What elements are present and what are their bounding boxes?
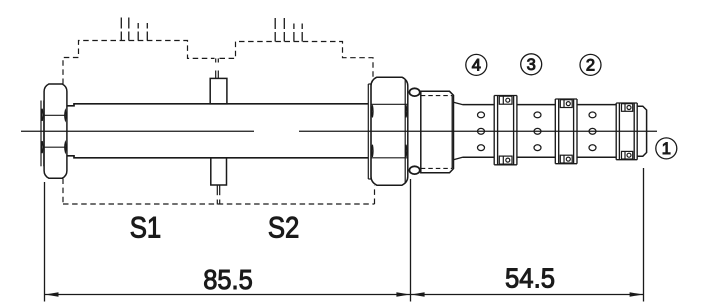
seal land 3 seal blocks	[622, 104, 633, 159]
sleeve 1	[463, 105, 495, 158]
connector block top leads	[216, 58, 219, 78]
coil box bottom dashed	[63, 179, 375, 205]
extension line left	[44, 182, 46, 302]
sleeve 2	[517, 105, 555, 158]
port callout 3	[521, 54, 542, 75]
dimension line	[45, 294, 644, 296]
hex nut N2 facet lines	[371, 79, 408, 184]
nose end cap	[637, 106, 646, 156]
svg-text:1: 1	[662, 140, 671, 158]
arrowheads	[45, 292, 643, 296]
tube body	[67, 104, 368, 158]
nut N1 hex body	[44, 84, 67, 178]
seal land 2	[555, 99, 577, 164]
connector pins S2	[275, 18, 302, 42]
hex nut N2 flange	[368, 84, 371, 179]
seal land 1 seal blocks	[499, 96, 512, 164]
connector block top	[210, 78, 227, 103]
gland right face	[452, 95, 462, 168]
nut N1 facet lines	[41, 109, 66, 153]
hex nut N2 body	[371, 77, 408, 185]
extension line middle	[410, 179, 412, 302]
svg-text:S2: S2	[268, 212, 300, 245]
port callout 2	[580, 54, 601, 75]
connector block bottom leads	[217, 185, 219, 205]
o-ring top	[409, 88, 419, 96]
nut N1 washer	[41, 101, 44, 167]
gland body thread dashed	[421, 96, 452, 169]
svg-text:2: 2	[586, 57, 595, 75]
svg-text:3: 3	[527, 56, 536, 74]
extension line right	[643, 168, 645, 302]
connector block bottom	[211, 158, 227, 185]
o-ring bottom	[409, 166, 419, 174]
coil S1 dashed outline	[63, 41, 215, 85]
sleeve 3 holes	[589, 112, 596, 151]
svg-text:54.5: 54.5	[505, 263, 555, 294]
connector pins S1	[121, 18, 147, 41]
svg-text:4: 4	[472, 57, 481, 75]
port callout 1	[656, 138, 677, 159]
sleeve 1 holes	[478, 112, 485, 151]
centerline	[21, 130, 657, 132]
gland body	[421, 91, 454, 173]
seal land 1	[494, 96, 517, 165]
port callout 4	[466, 54, 487, 75]
sleeve 3	[577, 105, 616, 158]
seal land 3	[616, 103, 637, 160]
sleeve 2 holes	[534, 112, 541, 151]
coil S2 dashed outline	[220, 42, 374, 78]
seal land 2 seal blocks	[560, 100, 572, 163]
svg-text:S1: S1	[130, 212, 162, 245]
svg-text:85.5: 85.5	[203, 264, 253, 295]
